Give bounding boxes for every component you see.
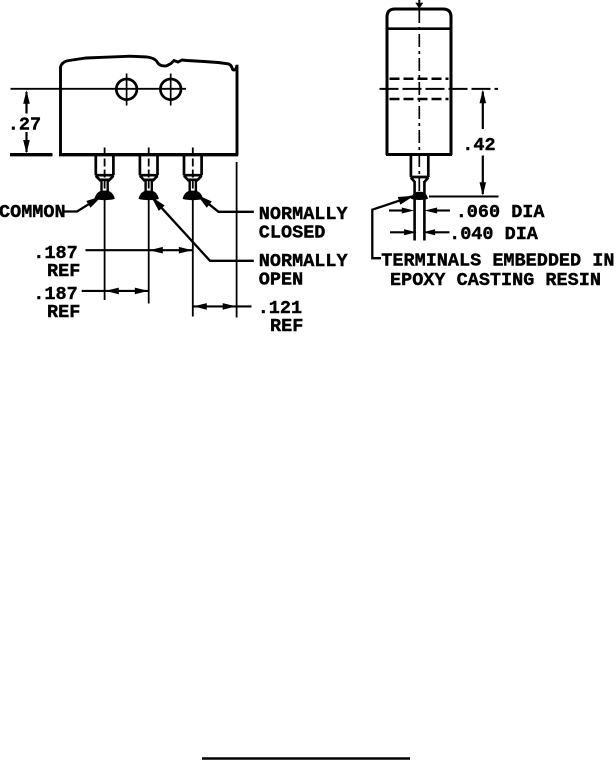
svg-text:EPOXY CASTING RESIN: EPOXY CASTING RESIN — [390, 270, 601, 291]
svg-text:REF: REF — [47, 302, 80, 323]
svg-text:TERMINALS EMBEDDED IN: TERMINALS EMBEDDED IN — [381, 251, 614, 272]
svg-text:.27: .27 — [8, 114, 41, 135]
svg-text:.040 DIA: .040 DIA — [449, 224, 539, 245]
svg-text:REF: REF — [47, 261, 80, 282]
svg-text:REF: REF — [270, 316, 303, 337]
svg-text:COMMON: COMMON — [0, 202, 66, 223]
svg-text:OPEN: OPEN — [259, 270, 303, 291]
svg-text:.42: .42 — [462, 135, 495, 156]
svg-text:.060 DIA: .060 DIA — [456, 202, 546, 223]
svg-text:CLOSED: CLOSED — [259, 223, 326, 244]
